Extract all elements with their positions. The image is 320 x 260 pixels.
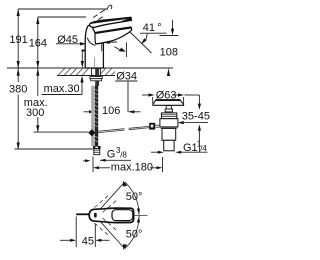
- svg-text:191: 191: [9, 34, 27, 46]
- svg-text:164: 164: [29, 38, 47, 50]
- locknut: [91, 79, 102, 81]
- dim 45 left arrow: [70, 239, 76, 242]
- dia45 leader underline: [56, 43, 81, 45]
- arc arrow lower at centerline: [137, 217, 140, 223]
- swing arc lower: [125, 216, 139, 249]
- svg-text:106: 106: [102, 105, 120, 117]
- dia63 right arrow: [178, 93, 184, 96]
- G38 left arrow: [85, 159, 90, 162]
- G38 left arrow tail: [83, 160, 86, 162]
- drain tailpipe: [164, 140, 174, 151]
- dim 106 right tail: [129, 111, 141, 113]
- dimension texts: [9, 22, 210, 173]
- max300 top arrow: [36, 69, 39, 76]
- dim 106 left tail: [84, 111, 90, 113]
- svg-text:35-45: 35-45: [182, 111, 210, 123]
- dim 164 line: [37, 17, 39, 68]
- max180 right extension (drain): [162, 157, 164, 172]
- 106 left arrow: [89, 110, 95, 113]
- svg-text:/4: /4: [200, 144, 207, 153]
- G114 dim line left tail: [151, 151, 159, 153]
- outlet stub line left: [101, 43, 103, 51]
- body centerline: [93, 58, 95, 69]
- dim max300 line: [37, 68, 39, 96]
- plan spout nub: [76, 213, 89, 215]
- dia63 dim line right: [172, 94, 178, 96]
- dim 45 right arrow: [95, 239, 101, 242]
- 191 bottom arrow: [17, 61, 20, 68]
- svg-text:300: 300: [26, 107, 44, 119]
- 106/dia34 shared arrow: [128, 110, 134, 113]
- outlet stub line right: [125, 42, 127, 57]
- washer: [90, 77, 102, 79]
- svg-text:Ø34: Ø34: [116, 71, 137, 83]
- DRAIN ASSEMBLY: [149, 100, 183, 151]
- dim 45 ext left: [75, 217, 77, 248]
- 108 bottom arrow: [167, 68, 170, 76]
- lever handle: [90, 17, 132, 27]
- svg-text:max.180: max.180: [111, 161, 153, 173]
- faucet body: [85, 25, 103, 68]
- extension line top (raised lever tip, 191): [18, 8, 107, 10]
- hose elbow diamond: [88, 129, 95, 136]
- pivot slot: [94, 213, 97, 218]
- plan grip pad: [112, 210, 133, 221]
- svg-text:45: 45: [82, 236, 94, 248]
- max180 dim line left seg: [99, 167, 110, 169]
- max180 left extension (hose centerline): [92, 157, 94, 173]
- 41deg underline: [140, 32, 167, 34]
- rotated centerline lower: [101, 222, 124, 248]
- drain lower cylinder: [162, 128, 176, 140]
- dia63 dim line left: [142, 94, 150, 96]
- G114 left arrow: [158, 151, 164, 154]
- plan centerline: [135, 215, 148, 217]
- swing arc upper: [125, 182, 139, 215]
- svg-text:380: 380: [9, 83, 27, 95]
- 191 top arrow: [17, 9, 20, 16]
- hose tube: [91, 86, 94, 146]
- pop-up rod double line: [95, 129, 124, 132]
- svg-text:Ø45: Ø45: [57, 34, 78, 46]
- dia63 left arrow: [149, 93, 155, 96]
- dia63 extension right: [183, 97, 185, 104]
- svg-text:/8: /8: [120, 151, 127, 160]
- max30 up arrow: [80, 76, 83, 83]
- arrowheads: [17, 9, 201, 169]
- svg-text:50°: 50°: [126, 191, 143, 203]
- raised lever tip: [107, 5, 112, 10]
- dim 45 ext right: [94, 224, 96, 247]
- spout top edge thick: [95, 27, 131, 33]
- hose end nut: [93, 146, 101, 149]
- extension line spout tip (108 top): [160, 35, 179, 37]
- FAUCET SIDE VIEW: [85, 5, 131, 68]
- braided hose: [95, 86, 98, 146]
- dia34 underline: [115, 80, 137, 82]
- dim 45 line left tail: [60, 239, 71, 241]
- max30 top tick: [82, 50, 87, 52]
- G38 right arrow: [100, 159, 106, 162]
- G38 underline: [100, 159, 131, 161]
- max30 upper leader above deck: [81, 51, 83, 62]
- G114 underline / right tail: [181, 151, 208, 153]
- 41deg arrowhead: [141, 38, 147, 44]
- 380 bottom arrow: [17, 143, 20, 150]
- plan lever outline: [89, 208, 133, 223]
- drain flange: [153, 100, 184, 105]
- max30 leader below deck: [42, 94, 83, 96]
- svg-text:41 °: 41 °: [143, 22, 162, 34]
- 35-45 down arrow: [198, 104, 201, 110]
- 35-45 up arrow: [198, 124, 201, 130]
- body-spout seam curve: [87, 38, 95, 46]
- drain valve body: [160, 119, 178, 127]
- dia45 arrow: [80, 42, 87, 45]
- 41deg leader stub: [146, 33, 148, 40]
- rotated lever dashed lower: [95, 218, 119, 237]
- dim 191 line: [17, 9, 19, 68]
- deck hatching: [58, 68, 115, 76]
- max180 dim line right seg: [150, 167, 157, 169]
- arc arrow upper at centerline: [137, 208, 140, 214]
- stem collar: [165, 109, 172, 112]
- MOUNTING COLUMN: [88, 58, 152, 155]
- svg-text:G1: G1: [183, 142, 198, 154]
- body washer line: [161, 127, 178, 129]
- dia63 extension left: [152, 97, 154, 104]
- flow arrow left: [102, 41, 110, 44]
- rotated lever dashed upper: [95, 194, 119, 213]
- lever top edge thick: [91, 18, 132, 24]
- max30 down arrow: [81, 61, 84, 68]
- max180 left arrow: [93, 166, 99, 169]
- 35-45 vertical dim upper: [185, 94, 200, 96]
- svg-text:50°: 50°: [126, 228, 143, 240]
- dia34 leader vertical: [127, 81, 129, 112]
- dim 380 line: [17, 68, 19, 82]
- spout: [95, 28, 132, 44]
- raised lever dashes: [93, 10, 105, 20]
- 35-45 leader line: [184, 122, 208, 124]
- dim 45 line right tail: [101, 239, 110, 241]
- lever tip dark wedge: [117, 18, 131, 24]
- arc arrow upper-left end: [123, 181, 128, 187]
- drain stem: [166, 106, 171, 109]
- extension line (lever top, 164): [38, 16, 86, 18]
- flow arrow down-right: [119, 48, 126, 52]
- rotated centerline upper: [101, 182, 124, 208]
- 164 bottom arrow: [36, 61, 39, 68]
- svg-text:max.30: max.30: [44, 83, 80, 95]
- G38 nipple: [94, 149, 100, 155]
- svg-text:G: G: [107, 149, 116, 161]
- locking ring: [161, 113, 176, 119]
- shank tube through deck: [92, 68, 101, 75]
- rod nut: [149, 123, 155, 130]
- G114 right arrow: [175, 151, 181, 154]
- countertop deck top line: [7, 67, 173, 69]
- flow leader line: [110, 41, 117, 43]
- max180 right arrow: [157, 166, 163, 169]
- extension line hose end (380 bottom): [15, 148, 93, 150]
- countertop deck bottom line: [57, 75, 115, 77]
- 108 top arrow: [171, 29, 174, 36]
- rod stub into body: [155, 124, 160, 126]
- arc arrow lower-left end: [123, 244, 128, 250]
- flow diag line: [114, 47, 119, 50]
- dim 108 upper tail: [172, 20, 174, 29]
- max300 bottom arrow: [36, 125, 39, 132]
- 380 top arrow: [17, 69, 20, 76]
- 164 top arrow: [36, 17, 39, 24]
- threaded rod: [95, 68, 99, 86]
- PLAN VIEW: [60, 181, 148, 250]
- extension line hose elbow (max300 bottom): [34, 131, 89, 133]
- svg-text:108: 108: [160, 47, 178, 59]
- 35-45 arrow: [178, 121, 184, 124]
- 35-45 vertical dim lower: [198, 130, 200, 152]
- line A lever axis extension: [130, 32, 152, 54]
